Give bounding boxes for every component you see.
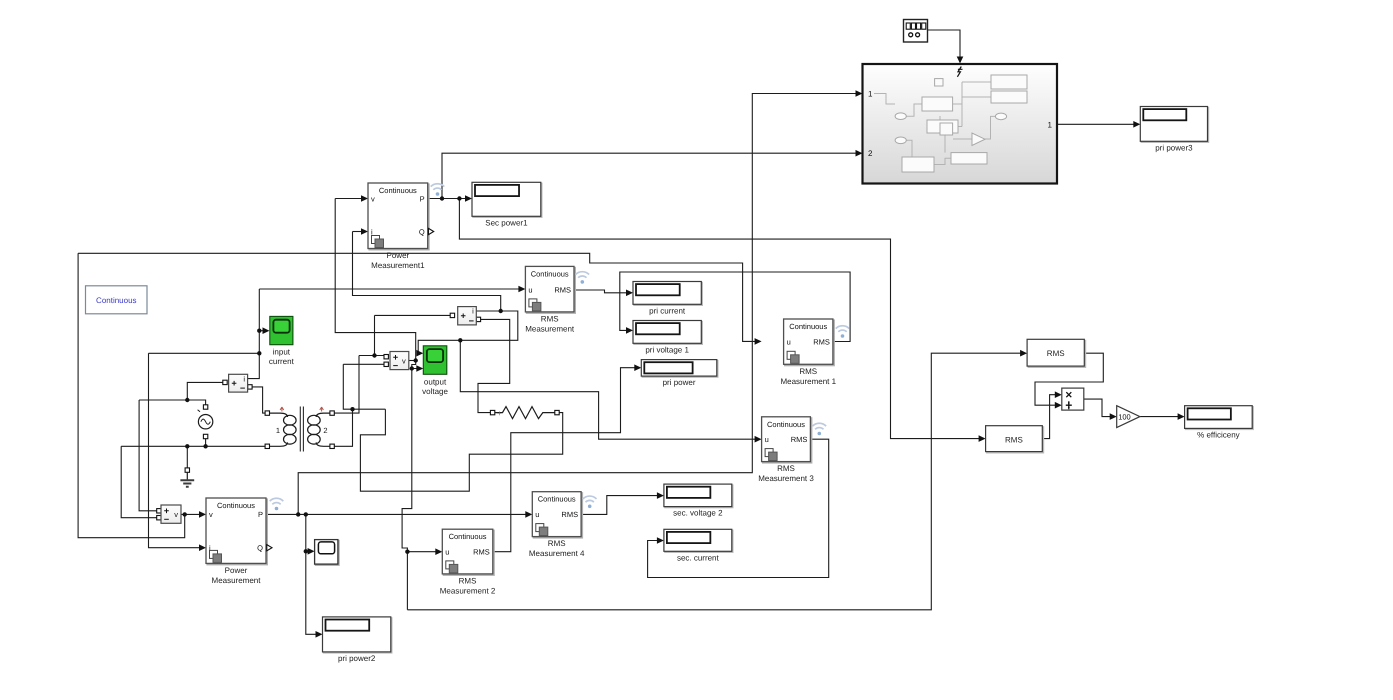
- svg-text:u: u: [787, 337, 791, 346]
- svg-text:Measurement: Measurement: [525, 324, 575, 333]
- svg-text:output: output: [424, 377, 447, 386]
- wire sec bottom to v2- node: [332, 409, 352, 446]
- wire v1 out to PM v: [181, 513, 203, 515]
- arrow into subsystem port 1: [856, 90, 863, 97]
- wire to i1 +: [187, 382, 225, 400]
- resistor R load: [495, 407, 555, 419]
- arrow into product x: [1055, 391, 1062, 398]
- display % efficiency: [1185, 406, 1254, 440]
- node i sig tee: [257, 351, 261, 355]
- svg-text:+: +: [497, 409, 502, 418]
- node src- node: [203, 444, 207, 448]
- polarity marker secondary: [320, 407, 324, 412]
- port source +: [203, 405, 207, 409]
- wire i1- to xfmr P+: [250, 387, 267, 413]
- port i2 -: [476, 317, 480, 321]
- wire RMS1 out to pri voltage 1: [620, 272, 850, 342]
- arrow into product div: [1055, 402, 1062, 409]
- wire return path to resistor right: [360, 409, 562, 491]
- svg-text:RMS: RMS: [1047, 349, 1065, 358]
- svg-text:Continuous: Continuous: [531, 269, 569, 278]
- svg-text:P: P: [258, 510, 263, 519]
- arrow into PM v: [199, 511, 206, 518]
- arrow into output voltage scope 2: [416, 365, 423, 372]
- svg-text:u: u: [445, 548, 449, 557]
- svg-text:RMS: RMS: [548, 539, 566, 548]
- node P1 tee2: [457, 196, 461, 200]
- arrow into RMS Measurement 4 u: [525, 511, 532, 518]
- wire PM P out to RMS4 u: [266, 513, 529, 515]
- wire RMS3 out to sec current: [648, 439, 829, 577]
- port xfmr 1-: [265, 444, 269, 448]
- svg-text:1: 1: [868, 90, 873, 99]
- svg-text:2: 2: [323, 426, 327, 435]
- svg-text:Q: Q: [419, 227, 425, 236]
- wire i signal to RMS u: [259, 288, 522, 290]
- svg-text:100: 100: [1118, 413, 1131, 422]
- svg-text:voltage: voltage: [422, 387, 448, 396]
- wire to RMS2 u: [407, 551, 439, 553]
- scope (unlabeled): [315, 540, 339, 566]
- port resistor right: [555, 410, 559, 414]
- svg-text:v: v: [209, 510, 213, 519]
- wire to v2 +: [359, 355, 386, 357]
- port v2 +: [384, 355, 388, 359]
- svg-text:RMS: RMS: [799, 367, 817, 376]
- block Power Measurement: [206, 498, 283, 585]
- arrow into output voltage scope 1: [416, 350, 423, 357]
- display pri voltage 1: [633, 321, 702, 355]
- arrow into PM1 i: [361, 228, 368, 235]
- svg-text:sec. current: sec. current: [677, 553, 720, 562]
- product (divide) block: [1062, 388, 1084, 410]
- arrow into subsystem port 2: [856, 150, 863, 157]
- svg-text:Measurement 3: Measurement 3: [758, 474, 814, 483]
- svg-text:Measurement 4: Measurement 4: [529, 549, 585, 558]
- svg-text:RMS: RMS: [459, 576, 477, 585]
- transformer T1 (linear transformer): [270, 407, 331, 452]
- display pri power3: [1140, 107, 1208, 153]
- display Sec power1: [472, 182, 542, 227]
- wire v2 - node: [343, 364, 385, 409]
- svg-text:u: u: [765, 435, 769, 444]
- node P tee1: [296, 512, 300, 516]
- AC voltage source V1: [198, 410, 213, 429]
- arrow into pri power: [634, 364, 641, 371]
- svg-text:pri current: pri current: [649, 306, 686, 315]
- port resistor left: [490, 410, 494, 414]
- wire i signal tee left: [149, 352, 260, 354]
- wire PM P to subsystem port1: [298, 94, 859, 515]
- wire to scope2: [306, 550, 312, 552]
- svg-text:Power: Power: [225, 566, 248, 575]
- port v1 +: [157, 509, 161, 513]
- node i2 sig tee2: [499, 309, 503, 313]
- node i2 sig tee: [458, 338, 462, 342]
- wire RMS out to pri current: [574, 290, 630, 293]
- svg-text:u: u: [535, 510, 539, 519]
- svg-text:RMS: RMS: [541, 314, 559, 323]
- arrow into RMS: [1020, 350, 1027, 357]
- svg-text:input: input: [273, 348, 291, 357]
- subsystem (power computation): [863, 64, 1058, 184]
- node v2 out: [414, 358, 418, 362]
- gain 100: [1117, 406, 1140, 428]
- svg-text:u: u: [528, 286, 532, 295]
- arrow into RMS1 block: [979, 435, 986, 442]
- wire v2 signal to RMS block: [407, 353, 1024, 610]
- arrow into pri current: [626, 290, 633, 297]
- node v2 tee: [410, 366, 414, 370]
- wire i2 signal to RMS3 u: [460, 340, 758, 439]
- wire i1 signal up: [248, 289, 260, 379]
- node rms2 tap: [405, 550, 409, 554]
- scope output voltage: [422, 346, 448, 396]
- arrow into gain: [1110, 413, 1117, 420]
- block RMS Measurement 4: [529, 492, 597, 558]
- svg-text:Continuous: Continuous: [767, 420, 805, 429]
- svg-text:Continuous: Continuous: [379, 186, 417, 195]
- wire v2 signal down: [402, 369, 412, 610]
- arrow into PM i: [199, 544, 206, 551]
- wire product to gain: [1084, 399, 1114, 417]
- svg-text:2: 2: [868, 149, 873, 158]
- svg-text:P: P: [420, 194, 425, 203]
- arrow into RMS Measurement u: [518, 286, 525, 293]
- svg-text:sec. voltage 2: sec. voltage 2: [673, 509, 723, 518]
- svg-text:Power: Power: [387, 251, 410, 260]
- wire v2 out: [409, 360, 416, 362]
- wire PM1 v from v2 out: [335, 199, 416, 361]
- current measurement I1 block: [229, 374, 248, 392]
- block RMS (top): [1027, 339, 1085, 367]
- svg-text:v: v: [402, 357, 406, 366]
- node scope tee: [257, 329, 261, 333]
- svg-text:RMS: RMS: [473, 548, 490, 557]
- port xfmr 2+: [330, 411, 334, 415]
- wire i2 signal to scope top: [418, 311, 518, 353]
- svg-text:current: current: [269, 357, 295, 366]
- powergui Continuous: [86, 286, 148, 314]
- ground: [180, 472, 194, 486]
- wire P to subsystem port2: [442, 153, 860, 198]
- node sec- tee: [350, 407, 354, 411]
- voltage measurement V2 block: [390, 352, 409, 370]
- wire src top node: [139, 400, 206, 407]
- svg-text:% efficiceny: % efficiceny: [1197, 430, 1240, 439]
- node scope tap: [304, 549, 308, 553]
- svg-text:Sec power1: Sec power1: [485, 218, 528, 227]
- arrow into efficiency display: [1178, 413, 1185, 420]
- wire to v2 -: [343, 363, 386, 365]
- arrow into RMS Measurement 2 u: [435, 548, 442, 555]
- svg-text:1: 1: [1048, 120, 1053, 129]
- wire PM1 i from i2 signal: [353, 232, 501, 312]
- svg-text:Measurement1: Measurement1: [371, 261, 425, 270]
- polarity marker primary: [280, 407, 284, 412]
- block Power Measurement1: [368, 183, 444, 270]
- arrow into sec voltage 2: [657, 492, 664, 499]
- wire to PM i: [149, 353, 204, 547]
- svg-text:RMS: RMS: [791, 435, 808, 444]
- svg-text:Measurement 2: Measurement 2: [440, 586, 496, 595]
- node sec+ tee: [372, 353, 376, 357]
- block RMS Measurement 1: [780, 319, 849, 386]
- display pri current: [633, 282, 702, 316]
- port xfmr 1+: [265, 411, 269, 415]
- arrow into pri voltage 1: [626, 327, 633, 334]
- node src+ node: [185, 398, 189, 402]
- svg-text:v: v: [371, 194, 375, 203]
- display pri power: [641, 360, 718, 388]
- display sec voltage 2: [664, 484, 733, 517]
- port ground: [185, 468, 189, 472]
- wire sec top port wire: [332, 356, 359, 414]
- output chevron PM1 Q: [429, 228, 434, 234]
- svg-text:Continuous: Continuous: [217, 501, 255, 510]
- arrow into scope: [308, 548, 315, 555]
- svg-text:Q: Q: [257, 544, 263, 553]
- arrow into input current scope: [263, 327, 270, 334]
- port v2 -: [384, 362, 388, 366]
- wire gain to display: [1140, 416, 1182, 418]
- port i1 -: [248, 385, 252, 389]
- wire sec+ vertical: [374, 315, 376, 355]
- wire to ground: [186, 446, 188, 468]
- node P tee2: [304, 512, 308, 516]
- block RMS Measurement: [525, 266, 589, 333]
- wire P branch down to pri power2: [306, 514, 320, 634]
- arrow into RMS Measurement 3 u: [755, 436, 762, 443]
- block RMS Measurement 2: [440, 529, 496, 595]
- arrow into PM1 v: [361, 195, 368, 202]
- wire RMS2 out to pri power: [493, 368, 639, 552]
- svg-text:RMS: RMS: [813, 337, 830, 346]
- svg-text:Continuous: Continuous: [96, 296, 136, 305]
- port v1 -: [157, 516, 161, 520]
- wire PM1 P out: [428, 198, 469, 200]
- node gnd node: [185, 444, 189, 448]
- wire RMS4 out to sec voltage 2: [581, 496, 661, 515]
- svg-text:1: 1: [276, 426, 280, 435]
- display sec current: [664, 529, 733, 562]
- wire to v1 +: [139, 400, 159, 511]
- svg-text:Continuous: Continuous: [449, 532, 487, 541]
- wire RMS top to divide: [1035, 353, 1103, 405]
- wire bottom node: [121, 445, 267, 447]
- arrow into RMS Measurement 1 u: [755, 338, 762, 345]
- node P1 tee1: [440, 196, 444, 200]
- output chevron PM Q: [267, 545, 272, 551]
- arrow into Sec power1: [465, 195, 472, 202]
- arrow into pri power3: [1133, 121, 1140, 128]
- svg-text:RMS: RMS: [561, 510, 578, 519]
- voltage measurement V1 block: [161, 505, 181, 523]
- port xfmr 2-: [330, 444, 334, 448]
- svg-text:Continuous: Continuous: [789, 322, 827, 331]
- wire src bottom: [205, 437, 207, 447]
- arrow into trigger port: [957, 57, 964, 64]
- wire to v1 -: [121, 446, 159, 517]
- wire timer to subsystem trigger: [928, 30, 961, 62]
- svg-text:Measurement 1: Measurement 1: [780, 377, 836, 386]
- wire i2- to resistor left: [478, 319, 510, 412]
- timer block: [904, 20, 928, 43]
- svg-text:RMS: RMS: [554, 286, 571, 295]
- current measurement I2 block: [458, 307, 477, 325]
- svg-text:v: v: [174, 510, 178, 519]
- svg-text:RMS: RMS: [1005, 436, 1023, 445]
- port i2 +: [450, 313, 454, 317]
- wire RMS low to multiply: [1042, 395, 1059, 439]
- arrow into pri power2: [316, 631, 323, 638]
- svg-text:Measurement: Measurement: [212, 576, 262, 585]
- wire pri voltage to RMS1 u: [78, 253, 759, 341]
- block RMS Measurement 3: [758, 417, 826, 483]
- node v1 out: [183, 512, 187, 516]
- svg-text:pri power3: pri power3: [1155, 143, 1193, 152]
- svg-text:RMS: RMS: [777, 464, 795, 473]
- arrow into sec current: [657, 537, 664, 544]
- wire into PM1 v: [335, 198, 365, 200]
- wire v1 out loop up: [78, 253, 185, 537]
- port i1 +: [223, 380, 227, 384]
- scope input current: [269, 316, 295, 366]
- wire P to lower RMS: [459, 199, 982, 439]
- svg-text:Continuous: Continuous: [538, 495, 576, 504]
- wire to input current scope: [259, 330, 266, 332]
- wire v2 to scope bottom: [412, 361, 421, 369]
- block RMS (lower): [986, 426, 1044, 453]
- wire subsystem out to pri power3: [1057, 123, 1137, 125]
- port source -: [203, 434, 207, 438]
- svg-text:pri power2: pri power2: [338, 654, 376, 663]
- wire sec+ to i2 +: [375, 314, 453, 316]
- svg-text:pri power: pri power: [663, 378, 696, 387]
- display pri power2: [323, 617, 392, 663]
- wire into PM1 i: [353, 231, 366, 233]
- svg-text:pri voltage 1: pri voltage 1: [645, 345, 689, 354]
